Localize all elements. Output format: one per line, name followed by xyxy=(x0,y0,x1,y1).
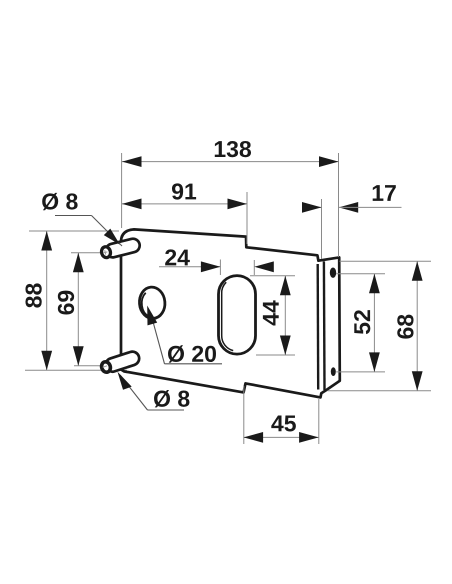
extension line 69 bottom xyxy=(74,365,101,367)
label 17 xyxy=(373,185,396,201)
peg bottom (cylinder) xyxy=(100,350,141,375)
obround hole 24x44 xyxy=(219,276,256,355)
label D8 bottom xyxy=(154,390,189,407)
plate outline xyxy=(121,229,340,397)
leader D8 bottom xyxy=(148,409,185,411)
label 45 xyxy=(271,415,296,431)
dimension 138 xyxy=(121,153,123,228)
dimension 68 xyxy=(340,260,432,262)
dimension 88 xyxy=(46,231,48,370)
dimension 24 xyxy=(219,260,221,276)
label 91 xyxy=(172,183,196,199)
dimension 69 xyxy=(77,253,79,366)
label 44 xyxy=(263,300,279,325)
dimension 45 xyxy=(243,386,245,444)
label 88 xyxy=(25,283,41,307)
label D20 xyxy=(168,345,216,362)
dimension 44 xyxy=(250,275,295,277)
label 24 xyxy=(165,249,190,265)
bend line B xyxy=(323,261,326,390)
label 138 xyxy=(215,141,251,157)
extension line 88 top xyxy=(29,230,119,232)
peg top (cylinder) xyxy=(100,237,141,260)
dimension 17 xyxy=(321,199,323,259)
label D8 top xyxy=(42,193,77,210)
screw hole top xyxy=(330,268,336,278)
dimension 52 xyxy=(336,273,385,275)
extension line 69 top xyxy=(71,252,100,254)
hole D20 xyxy=(138,286,166,319)
label 68 xyxy=(397,315,413,339)
label 69 xyxy=(58,291,74,315)
bend line A xyxy=(317,264,320,390)
dimension 91 xyxy=(246,192,248,244)
leader D8 top xyxy=(55,215,92,217)
label 52 xyxy=(354,310,370,334)
extension line 88 bottom (passes under peg) xyxy=(25,369,127,371)
screw hole bottom xyxy=(331,367,336,376)
leader D20 xyxy=(165,363,223,365)
